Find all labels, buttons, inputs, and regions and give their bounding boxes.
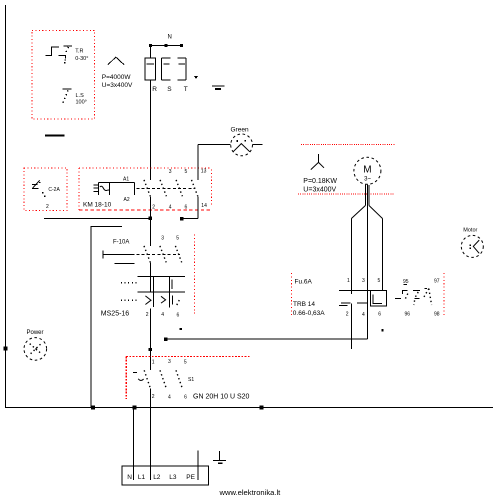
svg-text:6: 6 [184, 395, 187, 401]
snippet box TRB right edge (red dotted) [443, 273, 445, 317]
svg-text:2: 2 [146, 312, 149, 318]
wire PE stub [197, 451, 199, 466]
contact KM aux 13-14 [197, 144, 199, 180]
wire TRB phase 1 [350, 219, 352, 295]
svg-text:N: N [127, 474, 132, 481]
heater element R [145, 58, 155, 80]
svg-text:T: T [184, 86, 188, 93]
wire aux to stub [182, 218, 198, 220]
node main-left branch [149, 217, 152, 220]
stray dot left [180, 328, 182, 330]
svg-text:Green: Green [231, 126, 249, 133]
star symbol [318, 154, 320, 163]
contact F pole 2 [160, 246, 166, 263]
ground symbol PE [219, 451, 221, 460]
svg-text:5: 5 [185, 169, 188, 175]
svg-text:4: 4 [169, 204, 172, 210]
relay TRB lower segments [341, 302, 351, 304]
svg-text:www.elektronika.lt: www.elektronika.lt [219, 488, 282, 497]
node bus-enclosure [91, 406, 95, 410]
lamp Power [24, 338, 47, 361]
mechanical link F-10A [137, 253, 181, 255]
lamp Motor [461, 235, 483, 257]
snippet box thermostat group (red dotted) [32, 31, 95, 120]
contact F pole 1 [149, 218, 151, 246]
svg-text:N: N [168, 35, 172, 41]
svg-text:3: 3 [169, 169, 172, 175]
contact S1 pole 2 [160, 370, 166, 388]
svg-text:GN 20H 10 U S20: GN 20H 10 U S20 [193, 393, 250, 400]
wire lamp right [253, 143, 263, 145]
svg-text:0-30°: 0-30° [75, 56, 88, 62]
wire MS down to S1 [149, 308, 151, 370]
lamp Green [231, 134, 253, 156]
svg-text:T.R: T.R [75, 49, 83, 55]
wire N bus [150, 45, 182, 47]
heater element T [185, 58, 187, 80]
svg-text:F-10A: F-10A [113, 240, 129, 246]
svg-text:6: 6 [185, 204, 188, 210]
wire heater R down to KM pole 1 [149, 80, 151, 180]
svg-text:5: 5 [378, 278, 381, 284]
svg-text:Fu.6A: Fu.6A [295, 278, 313, 285]
heater caret symbol [108, 57, 124, 65]
terminal strip box [122, 466, 208, 485]
relay TRB element top line [339, 290, 371, 292]
wire bottom bus [5, 407, 493, 409]
time relay T.R step signal [45, 47, 59, 55]
svg-text:1: 1 [347, 278, 350, 284]
switch MS25-16 pole a [152, 276, 154, 306]
svg-text:4: 4 [168, 395, 171, 401]
svg-text:14: 14 [201, 203, 207, 209]
svg-text:U=3x400V: U=3x400V [102, 82, 133, 89]
svg-text:6: 6 [378, 312, 381, 318]
coil KM [94, 184, 98, 186]
switch MS25-16 chevron 1 [145, 296, 151, 305]
switch MS25-16 diagonal [177, 298, 181, 305]
svg-text:2: 2 [152, 204, 155, 210]
wire stub dash [45, 135, 65, 137]
wire left rail [5, 5, 7, 408]
wire motor leads [364, 185, 366, 206]
svg-text:97: 97 [434, 278, 440, 284]
switch MS25-16 bar A [138, 275, 185, 277]
node on wire [149, 348, 152, 351]
wire TRB phase 2 [366, 185, 368, 340]
svg-text:1: 1 [152, 360, 155, 366]
switch MS25-16 chevron 2 [161, 296, 166, 303]
mechanical link KM [136, 187, 194, 189]
node on left rail [4, 347, 8, 351]
svg-text:U=3x400V: U=3x400V [303, 186, 336, 193]
breaker F-10A actuator [102, 251, 104, 259]
breaker C-2A symbol [32, 184, 38, 186]
contact TRB 97-98 [413, 289, 420, 291]
contact F pole 3 [175, 246, 181, 263]
svg-text:Power: Power [27, 330, 44, 336]
svg-text:C-2A: C-2A [48, 187, 60, 193]
switch MS25-16 aux bar lower [172, 296, 174, 305]
thermostat contact L.S [63, 88, 72, 90]
svg-text:3: 3 [168, 359, 171, 365]
svg-text:L2: L2 [153, 474, 161, 481]
enclosure outline partial [91, 226, 122, 407]
wire TRB pole1 lower [350, 304, 352, 349]
motor M1 [354, 157, 381, 184]
svg-text:0.66-0,63A: 0.66-0,63A [293, 310, 325, 317]
heater element S [161, 58, 163, 80]
svg-text:2: 2 [346, 312, 349, 318]
svg-text:A2: A2 [124, 197, 130, 203]
svg-text:3~: 3~ [364, 177, 371, 183]
svg-text:96: 96 [405, 311, 411, 317]
svg-text:A1: A1 [123, 177, 129, 183]
wire N drop to heater R [149, 46, 151, 59]
svg-text:98: 98 [434, 311, 440, 317]
svg-text:4: 4 [362, 312, 365, 318]
wire TRB phase 3 [382, 219, 384, 291]
breaker box C-2A (red dotted) [24, 168, 67, 210]
contact S1 pole 1 [144, 370, 150, 388]
svg-text:2: 2 [152, 394, 155, 400]
svg-text:3: 3 [362, 278, 365, 284]
svg-text:P=0.18KW: P=0.18KW [303, 178, 337, 185]
svg-text:M: M [363, 165, 371, 176]
svg-text:KM 18-10: KM 18-10 [83, 202, 112, 209]
switch box S1 (red dashed) [126, 356, 251, 358]
svg-text:PE: PE [186, 474, 195, 481]
svg-text:L.S: L.S [76, 93, 85, 99]
snippet box TRB left edge (red dotted) [291, 273, 293, 317]
svg-text:13: 13 [201, 169, 207, 175]
node bus right [260, 406, 264, 410]
stray dot right [381, 329, 383, 331]
svg-text:6: 6 [177, 313, 180, 319]
wire lamp left [198, 143, 231, 145]
svg-text:2: 2 [46, 204, 49, 210]
relay TRB body box [371, 291, 387, 307]
contact KM pole 1 [144, 180, 150, 196]
switch MS25-16 bar B [138, 291, 185, 293]
contact TRB right [424, 288, 427, 290]
wire N down [132, 408, 134, 466]
svg-text:P=4000W: P=4000W [102, 74, 132, 81]
snippet box motor (red dotted) [301, 143, 396, 145]
node bus-N wire [133, 406, 137, 410]
contact S1 pole 3 [176, 370, 182, 388]
svg-text:Motor: Motor [463, 228, 477, 234]
contact KM pole 3 [176, 180, 182, 196]
thermostat contact T.R [64, 45, 72, 47]
switch MS25-16 aux bar upper [171, 280, 173, 289]
svg-text:R: R [152, 86, 157, 93]
svg-text:3: 3 [161, 235, 164, 241]
contactor box KM 18-10 (red dotted) [79, 167, 212, 169]
svg-text:TRB 14: TRB 14 [293, 301, 315, 308]
contact KM pole 2 [160, 180, 166, 196]
svg-text:5: 5 [184, 360, 187, 366]
contact TRB 95-96 [395, 297, 401, 299]
arrow marker [194, 76, 198, 79]
svg-text:L3: L3 [169, 474, 177, 481]
svg-text:MS25-16: MS25-16 [101, 310, 130, 317]
wire TRB to main (y=339) [166, 338, 368, 340]
svg-text:S: S [167, 86, 172, 93]
snippet edge F box (red dotted) [194, 235, 196, 314]
svg-text:S1: S1 [188, 377, 194, 383]
svg-text:5: 5 [176, 235, 179, 241]
svg-text:L1: L1 [138, 474, 146, 481]
switch MS25-16 pole b [168, 276, 170, 307]
ground symbol heater [212, 85, 225, 87]
switch MS25-16 link dots [121, 282, 138, 284]
svg-text:4: 4 [161, 312, 164, 318]
switch S1 actuator [133, 371, 137, 373]
svg-text:100°: 100° [76, 99, 87, 105]
wire left branch at 218 [44, 217, 150, 219]
